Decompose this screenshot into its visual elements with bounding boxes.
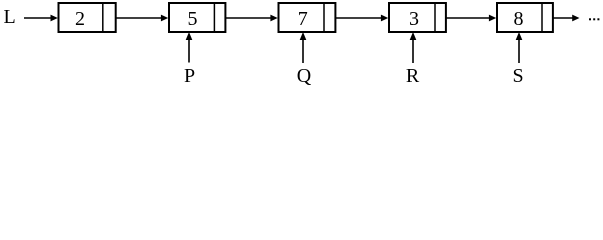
svg-text:S: S — [512, 65, 523, 87]
svg-text:2: 2 — [75, 8, 85, 30]
svg-text:R: R — [406, 65, 420, 87]
svg-text:3: 3 — [409, 8, 419, 30]
svg-text:5: 5 — [188, 8, 198, 30]
svg-text:8: 8 — [514, 8, 524, 30]
svg-text:7: 7 — [298, 8, 308, 30]
svg-text:L: L — [4, 6, 16, 28]
svg-text:P: P — [184, 65, 195, 87]
svg-text:Q: Q — [297, 65, 312, 87]
